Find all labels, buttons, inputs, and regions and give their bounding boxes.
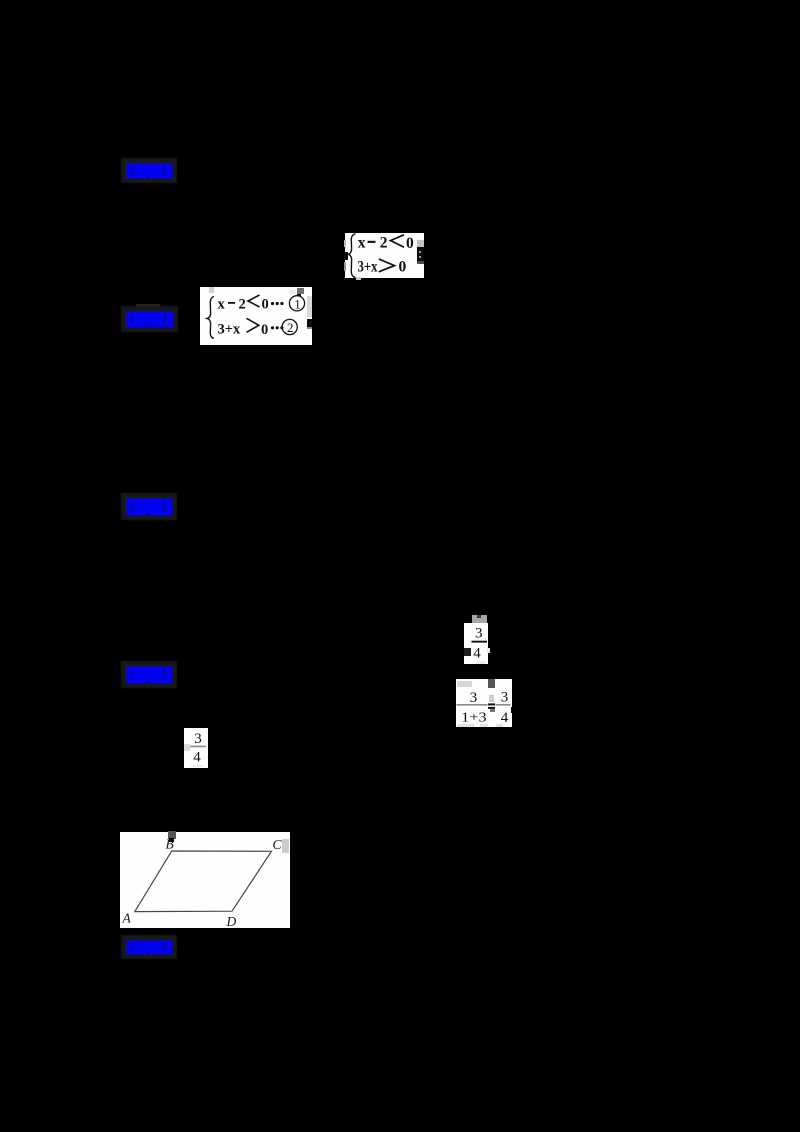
gray block below equals sign xyxy=(490,709,495,712)
dark gray tab top of parallelogram image xyxy=(168,831,176,839)
dark notch in fraction A tab xyxy=(477,615,481,618)
svg-text:3: 3 xyxy=(194,731,202,747)
fraction image C: 3/4 xyxy=(184,728,208,768)
blue label 1 xyxy=(126,163,172,178)
black tick right edge of fraction pair B xyxy=(511,707,513,713)
blue label 3 xyxy=(126,498,172,515)
svg-text:1: 1 xyxy=(294,296,301,311)
light gray notch top-middle of formula 2 xyxy=(289,290,297,294)
svg-text:x: x xyxy=(358,234,366,251)
svg-text:3: 3 xyxy=(470,690,478,706)
svg-text:x: x xyxy=(218,296,226,312)
svg-text:A: A xyxy=(122,911,132,926)
left edge marks of formula 1 xyxy=(344,240,346,247)
svg-text:0: 0 xyxy=(406,234,414,251)
fraction image A: 3/4 xyxy=(464,623,488,664)
dark char block right of formula 1 xyxy=(417,247,424,264)
faint strip bottom of fraction A xyxy=(476,661,486,664)
black tick below tab xyxy=(169,838,174,842)
svg-text:2: 2 xyxy=(239,296,246,312)
parallelogram ABCD xyxy=(135,851,272,912)
formula image 2: system with circled 1,2 xyxy=(200,287,312,345)
svg-text:D: D xyxy=(226,914,237,928)
light gray square near C xyxy=(282,839,289,853)
faint strips bottom of fraction pair B xyxy=(457,724,474,727)
svg-text:0: 0 xyxy=(261,322,268,338)
svg-text:4: 4 xyxy=(193,749,201,765)
light gray notch top-left of formula 2 xyxy=(209,287,214,293)
svg-text:3: 3 xyxy=(475,626,483,642)
gray square above equals sign xyxy=(489,695,494,702)
blue label 4 xyxy=(126,666,172,683)
svg-text:4: 4 xyxy=(473,646,481,662)
light gray notch top-left of fraction pair B xyxy=(457,681,472,687)
gray/dark marks at right edge of formula 2 xyxy=(297,288,304,294)
svg-text:3: 3 xyxy=(501,690,509,706)
svg-text:C: C xyxy=(273,837,283,852)
dark block left of fraction A denominator xyxy=(464,648,471,656)
blue label 5 xyxy=(126,940,172,954)
svg-text:3+x: 3+x xyxy=(358,258,378,275)
gray square left of fraction C bar xyxy=(184,744,190,751)
dark gray block top-middle of fraction pair B xyxy=(488,679,495,688)
gray mark right of formula 1 xyxy=(417,240,424,247)
svg-text:0: 0 xyxy=(399,258,407,275)
faint strip bottom of fraction C xyxy=(191,765,203,768)
gray tab above fraction A xyxy=(472,615,487,623)
white tick right of fraction A xyxy=(487,648,490,653)
svg-text:2: 2 xyxy=(380,234,388,251)
brace xyxy=(349,233,356,277)
svg-text:2: 2 xyxy=(287,320,294,335)
brace xyxy=(207,297,214,339)
svg-text:0: 0 xyxy=(262,297,269,313)
fraction pair B: 3/(1+3) = 3/4 xyxy=(456,679,512,727)
parallelogram image xyxy=(120,832,290,928)
gray bump above blue label 2 xyxy=(136,304,160,312)
svg-text:3+x: 3+x xyxy=(218,322,242,338)
brace gray tail below formula 1 xyxy=(356,277,361,280)
formula image 1: system x-2<0, 3+x>0 xyxy=(345,233,424,279)
